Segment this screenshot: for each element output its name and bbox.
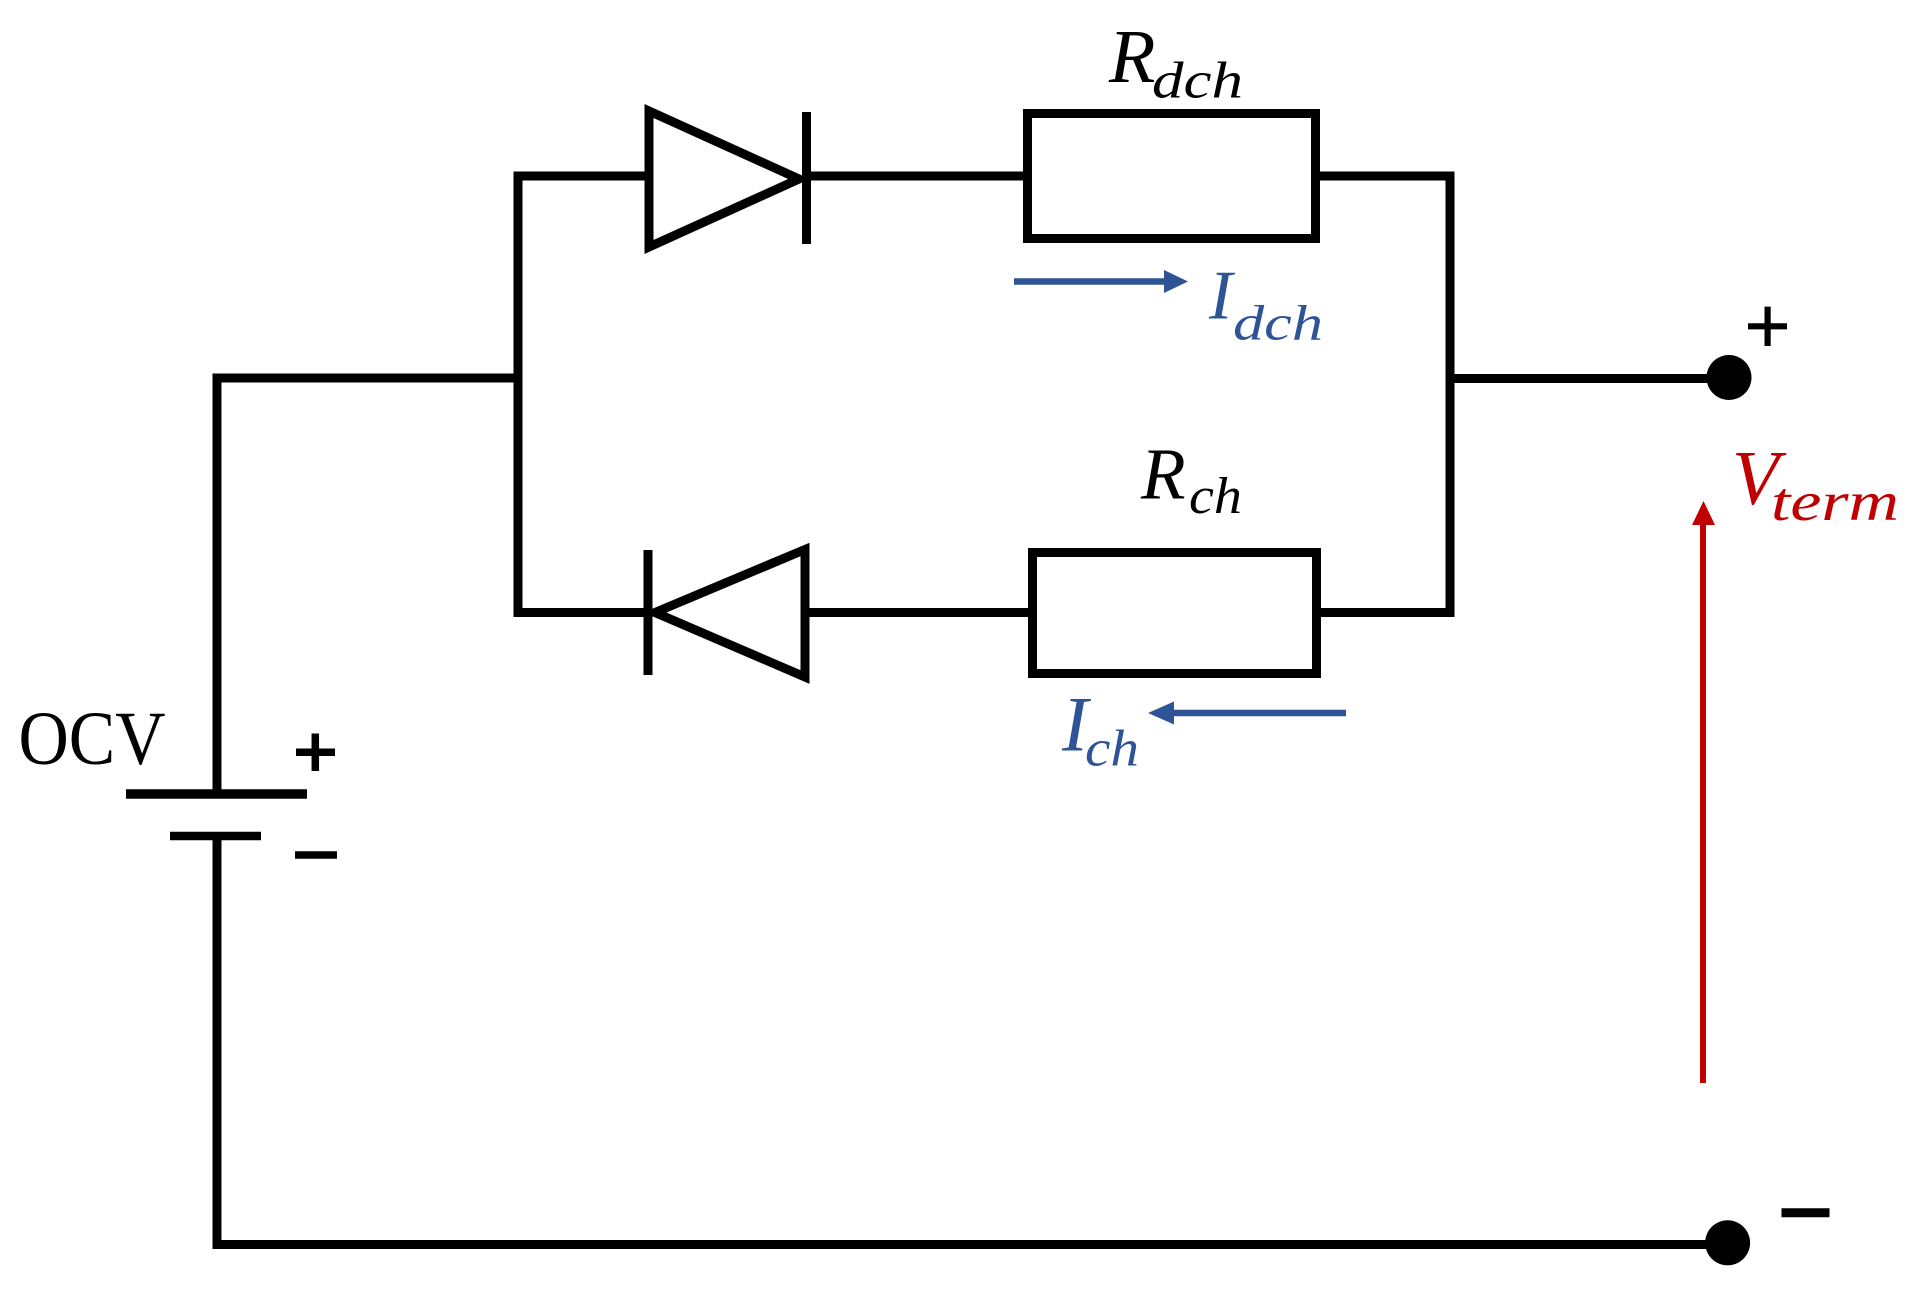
diode D1 (discharge path) triangle [649,111,799,247]
resistor R_dch body [1028,114,1316,239]
svg-text:ch: ch [1085,721,1139,778]
wire: battery positive terminal to left branch node [217,374,523,383]
label: - at battery negative plate [295,851,337,859]
svg-text:R: R [1140,434,1186,515]
diode D1 cathode bar [802,112,811,244]
svg-text:I: I [1208,258,1236,335]
wire: R_dch to right rail [1315,172,1455,181]
battery OCV: positive plate (long) [126,789,307,799]
wire: battery negative to negative output terminal (bottom return) [213,1240,1709,1249]
battery OCV: wire above positive plate [213,374,222,790]
label: + at battery positive plate [296,734,335,772]
wire: D1 cathode to resistor R_dch [806,172,1028,181]
node: positive terminal dot [1707,355,1752,400]
resistor R_ch body [1033,553,1317,674]
label: + at positive terminal [1748,307,1787,346]
wire: top branch, node A to diode D1 anode [514,172,656,181]
svg-text:ch: ch [1189,468,1242,525]
battery OCV: wire below negative plate [213,836,222,1249]
battery OCV: negative plate (short) [170,832,261,841]
voltage arrow V_term [1692,501,1715,1083]
diode D2 (charge path) triangle [655,550,805,678]
node: negative terminal dot [1705,1220,1750,1265]
wire: bottom branch, node A to diode D2 cathode [514,608,651,617]
wire: left branch vertical (node A) [514,172,523,617]
svg-text:R: R [1108,15,1155,99]
svg-text:dch: dch [1152,53,1243,110]
svg-text:term: term [1771,471,1899,532]
current arrow I_dch [1014,270,1188,293]
current arrow I_ch [1148,702,1346,725]
wire: right rail to positive output terminal [1446,374,1710,383]
wire: right rail vertical (node B) [1446,172,1455,617]
svg-text:dch: dch [1233,295,1323,351]
wire: D2 anode to resistor R_ch [805,608,1033,617]
diode D2 cathode bar [644,550,653,675]
label: - at negative terminal [1782,1208,1830,1217]
wire: R_ch to right rail [1316,608,1455,617]
svg-text:OCV: OCV [19,697,166,781]
